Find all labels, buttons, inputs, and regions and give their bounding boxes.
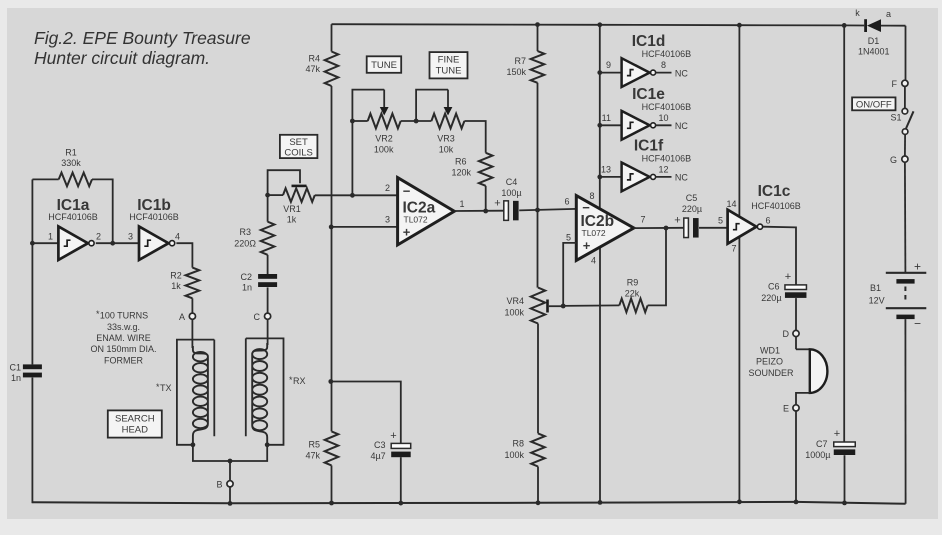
wire <box>738 25 740 217</box>
svg-text:ON/OFF: ON/OFF <box>856 99 892 110</box>
junction <box>597 175 602 180</box>
svg-text:B1: B1 <box>870 283 881 293</box>
wire <box>795 298 797 330</box>
junction <box>228 459 233 464</box>
wire <box>331 465 333 503</box>
svg-text:PEIZO: PEIZO <box>756 357 783 367</box>
label TX <box>156 382 172 393</box>
wire <box>229 487 231 504</box>
svg-text:+: + <box>494 198 500 210</box>
node F <box>892 79 909 89</box>
svg-text:FORMER: FORMER <box>104 355 143 365</box>
svg-text:NC: NC <box>675 68 688 78</box>
svg-text:HCF40106B: HCF40106B <box>129 212 179 222</box>
svg-text:R8: R8 <box>512 439 524 449</box>
svg-text:VR2: VR2 <box>375 134 393 144</box>
svg-text:ON 150mm DIA.: ON 150mm DIA. <box>90 344 156 354</box>
inverter IC1e <box>622 111 656 140</box>
wire <box>600 124 622 126</box>
wire <box>795 411 797 502</box>
svg-text:100k: 100k <box>504 308 524 318</box>
wire <box>563 243 576 306</box>
svg-text:120k: 120k <box>451 168 471 178</box>
svg-text:6: 6 <box>564 196 569 206</box>
pin 1 <box>48 232 53 242</box>
label IC2a <box>403 200 436 225</box>
wire <box>464 121 485 153</box>
resistor R9 <box>563 228 666 312</box>
wire <box>904 134 906 156</box>
wire <box>600 176 622 178</box>
wire <box>267 195 269 222</box>
label C5 <box>682 193 702 214</box>
svg-text:12V: 12V <box>869 295 885 305</box>
svg-text:IC1c: IC1c <box>758 183 791 200</box>
wire <box>267 319 269 345</box>
pin 4 <box>591 255 596 265</box>
svg-text:12: 12 <box>658 164 668 174</box>
diode D1 <box>864 19 905 32</box>
node B <box>216 480 233 490</box>
svg-text:WD1: WD1 <box>760 345 780 355</box>
svg-text:HCF40106B: HCF40106B <box>751 201 801 211</box>
svg-text:150k: 150k <box>506 67 526 77</box>
svg-text:4: 4 <box>175 232 180 242</box>
inverter IC1b <box>139 226 175 260</box>
junction <box>483 209 488 214</box>
pot VR1 <box>268 170 315 202</box>
svg-text:NC: NC <box>675 121 688 131</box>
plus B1 <box>914 259 921 273</box>
svg-text:100 TURNS: 100 TURNS <box>100 311 148 321</box>
svg-text:1n: 1n <box>242 283 252 293</box>
wire <box>191 319 193 348</box>
label C3 <box>370 440 385 461</box>
svg-text:22k: 22k <box>625 288 640 298</box>
node G <box>890 155 908 165</box>
inductor TX coil <box>193 346 208 444</box>
wire <box>699 227 728 229</box>
label C7 <box>805 439 830 460</box>
svg-text:TL072: TL072 <box>582 228 606 238</box>
svg-text:A: A <box>179 312 185 322</box>
pin 9 <box>606 60 611 70</box>
svg-text:C: C <box>254 312 261 322</box>
label C2 <box>240 272 252 293</box>
svg-text:C2: C2 <box>240 272 252 282</box>
junction <box>329 225 334 230</box>
resistor R7 <box>531 51 545 83</box>
resistor R1 <box>59 173 92 187</box>
label R5 <box>305 440 320 461</box>
resistor R3 <box>261 222 275 255</box>
wire <box>519 209 576 211</box>
pin 7 <box>641 214 646 224</box>
label C1 <box>9 363 21 384</box>
wire <box>454 210 504 212</box>
label TUNE box <box>367 56 402 73</box>
capacitor C7 <box>834 442 856 455</box>
label IC1e <box>632 86 691 112</box>
label R3 <box>234 227 256 249</box>
label NC <box>675 68 688 78</box>
wire <box>351 121 353 195</box>
svg-text:6: 6 <box>766 215 771 225</box>
svg-text:R3: R3 <box>239 227 251 237</box>
svg-text:Hunter circuit diagram.: Hunter circuit diagram. <box>34 48 210 68</box>
label VR4 <box>504 296 524 318</box>
svg-text:F: F <box>892 79 898 89</box>
wire <box>844 455 846 503</box>
svg-text:R1: R1 <box>65 148 77 158</box>
label IC2b <box>581 213 615 238</box>
svg-text:4: 4 <box>591 255 596 265</box>
svg-text:3: 3 <box>128 232 133 242</box>
wire <box>904 86 906 108</box>
junction <box>30 241 35 246</box>
svg-text:R4: R4 <box>308 54 320 64</box>
opamp plus <box>583 238 591 253</box>
svg-text:100µ: 100µ <box>501 188 521 198</box>
svg-text:+: + <box>674 215 680 227</box>
svg-text:HCF40106B: HCF40106B <box>642 102 692 112</box>
label R2 <box>170 271 182 292</box>
pin 3 <box>128 232 133 242</box>
svg-text:C1: C1 <box>9 363 21 373</box>
inverter IC1d <box>622 58 656 87</box>
junction <box>414 119 419 124</box>
svg-text:C5: C5 <box>686 193 698 203</box>
wire <box>401 120 432 122</box>
junction <box>598 500 603 505</box>
wire <box>315 194 398 196</box>
label WD1 <box>748 345 794 378</box>
wire <box>599 247 601 503</box>
label R4 <box>305 54 320 75</box>
plus C3 <box>390 430 396 442</box>
svg-text:330k: 330k <box>61 158 81 168</box>
svg-text:1: 1 <box>460 199 465 209</box>
svg-text:4µ7: 4µ7 <box>370 451 385 461</box>
svg-text:R9: R9 <box>627 277 639 287</box>
svg-text:14: 14 <box>726 199 736 209</box>
svg-text:D1: D1 <box>868 36 880 46</box>
junction <box>265 442 270 447</box>
node A <box>179 312 196 322</box>
battery B1 <box>886 273 927 319</box>
plus C4 <box>494 198 500 210</box>
junction <box>398 501 403 506</box>
capacitor C6 <box>785 285 807 298</box>
pot VR3 <box>416 90 464 129</box>
label VR2 <box>374 134 394 155</box>
capacitor C3 <box>391 443 411 457</box>
wire <box>843 25 845 442</box>
wire <box>331 226 397 228</box>
capacitor C1 <box>23 364 42 377</box>
svg-text:220µ: 220µ <box>682 204 702 214</box>
inverter IC1f <box>622 163 656 192</box>
svg-text:10k: 10k <box>439 145 454 155</box>
label R9 <box>625 277 640 298</box>
svg-text:+: + <box>785 271 791 283</box>
wire <box>331 86 333 431</box>
switch S1 <box>902 108 913 134</box>
svg-text:9: 9 <box>606 60 611 70</box>
inverter IC1c <box>728 210 763 244</box>
wire <box>537 324 539 434</box>
svg-text:1k: 1k <box>171 281 181 291</box>
svg-text:1n: 1n <box>11 373 21 383</box>
wire <box>32 179 112 243</box>
svg-text:RX: RX <box>293 376 306 386</box>
wire <box>32 242 58 244</box>
svg-text:−: − <box>914 316 921 330</box>
wire <box>31 378 33 504</box>
resistor R8 <box>531 433 545 466</box>
svg-text:VR3: VR3 <box>437 134 455 144</box>
label k <box>855 8 860 18</box>
wire <box>599 25 601 209</box>
wire <box>537 467 539 503</box>
svg-text:1: 1 <box>48 232 53 242</box>
pin 3 <box>385 214 390 224</box>
svg-text:10: 10 <box>658 113 668 123</box>
label FINE TUNE box <box>430 52 468 78</box>
pot VR2 <box>352 90 400 129</box>
svg-text:7: 7 <box>641 214 646 224</box>
wire <box>763 227 796 285</box>
svg-text:E: E <box>783 404 789 414</box>
svg-text:33s.w.g.: 33s.w.g. <box>107 322 140 332</box>
svg-text:C4: C4 <box>506 177 518 187</box>
junction <box>535 208 540 213</box>
svg-text:R7: R7 <box>514 56 526 66</box>
wire <box>537 83 539 288</box>
junction <box>191 442 196 447</box>
capacitor C5 <box>684 218 699 238</box>
wire <box>400 457 402 503</box>
svg-text:HCF40106B: HCF40106B <box>642 153 692 163</box>
label IC1d <box>632 33 691 59</box>
svg-text:TL072: TL072 <box>404 215 428 225</box>
plus C5 <box>674 215 680 227</box>
node C <box>254 312 271 322</box>
junction <box>597 70 602 75</box>
wire <box>267 287 269 313</box>
svg-text:Fig.2. EPE Bounty Treasure: Fig.2. EPE Bounty Treasure <box>34 28 251 48</box>
inverter IC1a <box>58 226 94 260</box>
pin 14 <box>726 199 736 209</box>
plus C7 <box>834 428 840 440</box>
svg-text:ENAM. WIRE: ENAM. WIRE <box>96 333 151 343</box>
svg-text:220Ω: 220Ω <box>234 239 256 249</box>
svg-text:+: + <box>403 225 411 240</box>
svg-text:IC1f: IC1f <box>634 137 664 154</box>
pot VR4 <box>531 288 563 324</box>
svg-text:2: 2 <box>96 232 101 242</box>
svg-text:HCF40106B: HCF40106B <box>642 49 692 59</box>
svg-text:−: − <box>582 200 590 215</box>
wire <box>634 227 684 229</box>
opamp minus <box>582 200 590 215</box>
junction <box>535 22 540 27</box>
svg-text:TUNE: TUNE <box>436 66 462 77</box>
label SET COILS box <box>280 135 318 159</box>
svg-text:SET: SET <box>289 137 308 148</box>
wire <box>191 298 193 313</box>
svg-text:47k: 47k <box>305 451 320 461</box>
wire <box>905 26 907 80</box>
label IC1c <box>751 183 801 211</box>
label R1 <box>61 148 81 169</box>
junction <box>842 501 847 506</box>
label R8 <box>504 439 524 460</box>
svg-text:R2: R2 <box>170 271 182 281</box>
svg-text:7: 7 <box>731 244 736 254</box>
junction <box>737 23 742 28</box>
svg-text:+: + <box>914 259 921 273</box>
svg-text:47k: 47k <box>305 64 320 74</box>
svg-text:COILS: COILS <box>284 148 313 159</box>
wire <box>904 319 906 504</box>
svg-text:3: 3 <box>385 214 390 224</box>
label S1 <box>890 113 901 123</box>
screen RX <box>246 338 284 444</box>
opamp minus <box>403 184 411 199</box>
node D <box>783 329 800 339</box>
wire <box>31 243 33 364</box>
resistor R5 <box>325 431 339 465</box>
svg-text:220µ: 220µ <box>761 293 781 303</box>
opamp plus <box>403 225 411 240</box>
caption <box>34 28 251 68</box>
junction <box>265 193 270 198</box>
note 100 TURNS <box>90 309 156 365</box>
label C6 <box>761 282 781 304</box>
svg-text:C6: C6 <box>768 282 780 292</box>
op-amp IC2b <box>576 196 634 261</box>
wire <box>193 445 267 481</box>
label IC1a <box>48 197 98 222</box>
capacitor C2 <box>258 274 277 287</box>
svg-text:D: D <box>783 329 790 339</box>
plus C6 <box>785 271 791 283</box>
pin 4 <box>175 232 180 242</box>
wire <box>537 25 539 51</box>
svg-text:SEARCH: SEARCH <box>115 414 155 425</box>
inductor RX coil <box>252 343 267 446</box>
junction <box>842 23 847 28</box>
label ON/OFF box <box>852 97 895 110</box>
junction <box>737 499 742 504</box>
label R7 <box>506 56 526 77</box>
resistor R6 <box>479 153 493 186</box>
pin 6 <box>564 196 569 206</box>
label IC1b <box>129 197 179 222</box>
wire <box>31 179 33 243</box>
node E <box>783 404 799 414</box>
svg-text:B: B <box>216 480 222 490</box>
label IC1f <box>634 137 691 163</box>
pin 1 <box>460 199 465 209</box>
wire NC <box>655 124 671 126</box>
pin 13 <box>601 164 611 174</box>
svg-text:8: 8 <box>661 60 666 70</box>
svg-text:+: + <box>390 430 396 442</box>
wire <box>738 237 740 502</box>
label R6 <box>451 157 471 178</box>
svg-text:5: 5 <box>566 232 571 242</box>
wire <box>96 242 139 244</box>
svg-text:G: G <box>890 155 897 165</box>
wire <box>331 24 333 51</box>
svg-text:HEAD: HEAD <box>122 425 149 436</box>
wire <box>904 162 907 273</box>
wire <box>267 255 269 274</box>
op-amp IC2a <box>398 178 455 245</box>
pin 10 <box>658 113 668 123</box>
wire <box>485 186 487 211</box>
svg-text:13: 13 <box>601 164 611 174</box>
svg-text:TX: TX <box>160 383 172 393</box>
label VR1 <box>283 204 301 225</box>
svg-text:IC1d: IC1d <box>632 33 666 50</box>
label C4 <box>501 177 521 198</box>
pin 5 <box>566 232 571 242</box>
svg-text:R5: R5 <box>308 440 320 450</box>
wire NC <box>655 176 671 178</box>
wire NC <box>655 72 671 74</box>
minus B1 <box>914 316 921 330</box>
svg-text:2: 2 <box>385 183 390 193</box>
svg-text:R6: R6 <box>455 157 467 167</box>
svg-text:+: + <box>834 428 840 440</box>
svg-text:FINE: FINE <box>438 55 460 66</box>
capacitor C4 <box>504 201 519 221</box>
junction <box>228 501 233 506</box>
svg-text:SOUNDER: SOUNDER <box>748 368 794 378</box>
pin 2 <box>385 183 390 193</box>
svg-text:a: a <box>886 9 891 19</box>
pin 6 <box>766 215 771 225</box>
junction <box>597 22 602 27</box>
svg-text:1k: 1k <box>287 215 297 225</box>
pin 11 <box>602 113 611 123</box>
svg-text:C7: C7 <box>816 439 828 449</box>
label VR3 <box>437 134 455 155</box>
resistor R2 <box>186 268 200 299</box>
svg-text:HCF40106B: HCF40106B <box>48 212 98 222</box>
svg-text:k: k <box>855 8 860 18</box>
pin 8 <box>589 191 594 201</box>
svg-text:8: 8 <box>589 191 594 201</box>
pin 2 <box>96 232 101 242</box>
svg-text:1000µ: 1000µ <box>805 450 830 460</box>
label SEARCH HEAD box <box>108 410 162 437</box>
svg-text:100k: 100k <box>374 145 394 155</box>
svg-text:1N4001: 1N4001 <box>858 47 890 57</box>
svg-text:VR1: VR1 <box>283 204 301 214</box>
svg-text:S1: S1 <box>890 113 901 123</box>
wire top rail <box>332 24 865 25</box>
pin 5 <box>718 215 723 225</box>
svg-text:TUNE: TUNE <box>371 60 397 71</box>
svg-text:100k: 100k <box>504 450 524 460</box>
pin 8 <box>661 60 666 70</box>
svg-text:IC1e: IC1e <box>632 86 665 103</box>
svg-text:5: 5 <box>718 215 723 225</box>
